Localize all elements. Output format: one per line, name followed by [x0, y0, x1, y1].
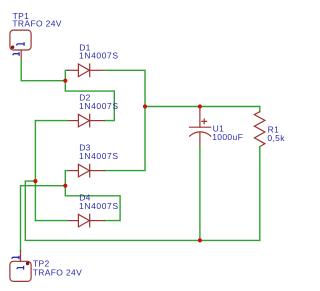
- junction DC+ cap top: [198, 104, 202, 108]
- wire TP2 to node AC2: [21, 186, 66, 251]
- junction DC+ left: [143, 104, 147, 108]
- resistor R1: [254, 107, 265, 241]
- wire cap bottom to bottom rail: [199, 147, 201, 241]
- wire node AC2 to D3 anode: [65, 171, 68, 186]
- svg-text:1N4007S: 1N4007S: [79, 201, 119, 211]
- junction cap bottom: [198, 238, 202, 242]
- TP1 pin number 1: [13, 52, 19, 55]
- junction node AC1: [63, 79, 67, 83]
- wire DC- bus vertical: [34, 121, 36, 221]
- capacitor U1: [190, 108, 211, 147]
- junction node AC2: [63, 184, 67, 188]
- svg-text:TRAFO 24V: TRAFO 24V: [33, 267, 82, 277]
- wire DC- jog to bottom rail: [25, 181, 259, 240]
- TP2 pin 1: [20, 251, 22, 261]
- svg-text:TRAFO 24V: TRAFO 24V: [12, 19, 61, 29]
- svg-text:1N4007S: 1N4007S: [79, 51, 119, 61]
- diode D3: [68, 164, 104, 177]
- wire node AC2 to D4 cathode: [65, 186, 120, 221]
- wire D4 anode to DC- bus: [35, 220, 68, 222]
- wire D3 cathode riser: [104, 107, 145, 171]
- connector TP1: [10, 30, 31, 50]
- diode D4: [68, 214, 104, 227]
- wire node AC1 to D1 anode: [65, 70, 68, 80]
- TP2 pin number 1: [12, 256, 19, 260]
- wire D2 anode to DC- bus: [35, 120, 68, 122]
- svg-text:0,5k: 0,5k: [267, 133, 285, 143]
- diode D2: [68, 114, 104, 127]
- diode D1: [68, 64, 104, 77]
- svg-text:1N4007S: 1N4007S: [79, 101, 119, 111]
- wire DC+ bus horizontal: [145, 106, 260, 108]
- wire TP1 to node AC1: [21, 60, 65, 81]
- wire node AC1 to D2 cathode: [65, 81, 114, 121]
- svg-text:1N4007S: 1N4007S: [79, 151, 119, 161]
- junction DC- bus: [33, 179, 37, 183]
- svg-text:1000uF: 1000uF: [212, 132, 243, 142]
- wire D1 cathode to DC+ bus: [104, 70, 145, 106]
- TP1 pin 1: [20, 50, 22, 60]
- connector TP2: [10, 261, 31, 281]
